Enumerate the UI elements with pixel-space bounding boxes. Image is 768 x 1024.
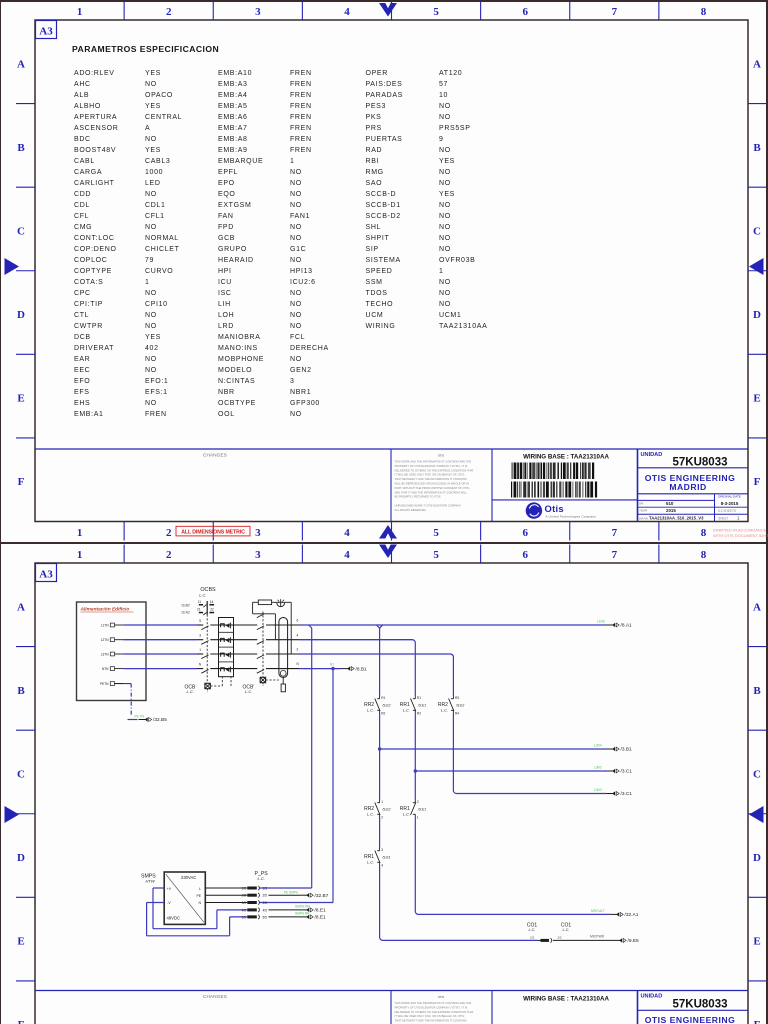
svg-text:2: 2 bbox=[381, 816, 383, 820]
svg-text:F: F bbox=[754, 1019, 761, 1024]
page 2 zone rulers bbox=[16, 545, 766, 1024]
svg-text:4: 4 bbox=[344, 527, 350, 539]
wire L4 feed bbox=[123, 668, 299, 670]
svg-text:R2: R2 bbox=[381, 712, 385, 716]
svg-text:L.C.: L.C. bbox=[403, 709, 410, 713]
wire N bus bbox=[260, 667, 342, 903]
svg-text:C: C bbox=[753, 768, 761, 780]
svg-text:OTIS: OTIS bbox=[438, 454, 445, 458]
svg-text:A United Technologies Company: A United Technologies Company bbox=[546, 515, 597, 519]
svg-text:/S:A2: /S:A2 bbox=[180, 611, 189, 615]
svg-text:2: 2 bbox=[166, 549, 172, 561]
svg-text:MRO ALT: MRO ALT bbox=[591, 909, 605, 913]
svg-text:4: 4 bbox=[381, 864, 383, 868]
svg-text:/32.B5: /32.B5 bbox=[153, 717, 167, 723]
arrow /32.A1 bbox=[591, 909, 639, 918]
svg-text:L: L bbox=[199, 887, 201, 891]
svg-text:N: N bbox=[297, 662, 300, 666]
svg-text:1: 1 bbox=[737, 516, 740, 521]
svg-text:N: N bbox=[199, 901, 202, 905]
svg-text:-V: -V bbox=[167, 901, 171, 905]
svg-text:F: F bbox=[754, 476, 761, 488]
relay contact RR1 2-1 bbox=[400, 800, 427, 820]
svg-text:5: 5 bbox=[433, 527, 439, 539]
svg-text:5: 5 bbox=[433, 549, 439, 561]
wire branch to SMPS L bbox=[260, 625, 312, 888]
relay contact RR1 3-4 bbox=[364, 848, 391, 868]
svg-text:2: 2 bbox=[417, 800, 419, 804]
svg-text:E: E bbox=[17, 393, 24, 405]
svg-text:3: 3 bbox=[255, 6, 261, 18]
svg-text:L3N2: L3N2 bbox=[594, 788, 602, 792]
svg-text:4: 4 bbox=[344, 549, 350, 561]
breaker output pin numbers bbox=[297, 619, 300, 667]
svg-text:4/5: 4/5 bbox=[242, 908, 247, 912]
page 2 centering triangles bbox=[5, 545, 764, 824]
svg-text:A: A bbox=[17, 601, 25, 613]
svg-text:/8.A1: /8.A1 bbox=[621, 623, 633, 629]
arrow /32.B5 bbox=[135, 714, 168, 723]
svg-text:SMPS WH: SMPS WH bbox=[295, 905, 311, 909]
svg-text:AND THAT IT AND THE INFORMATIO: AND THAT IT AND THE INFORMATION IT CONTA… bbox=[395, 490, 468, 494]
svg-text:1/2: 1/2 bbox=[530, 936, 534, 940]
page right edge bbox=[766, 0, 768, 1024]
svg-text:1: 1 bbox=[77, 6, 83, 18]
wire L2 to relay column 2 bbox=[299, 640, 415, 696]
SMPS output wiring bbox=[147, 888, 248, 936]
svg-text:1: 1 bbox=[77, 527, 83, 539]
svg-text:8-3-2015: 8-3-2015 bbox=[721, 501, 739, 506]
svg-text:PE: PE bbox=[196, 894, 201, 898]
arrow /8.E1 a bbox=[295, 905, 326, 914]
svg-text:D: D bbox=[753, 852, 761, 864]
svg-text:22: 22 bbox=[210, 608, 214, 612]
svg-text:3: 3 bbox=[255, 549, 261, 561]
svg-text:7: 7 bbox=[612, 549, 618, 561]
svg-text:D: D bbox=[17, 309, 25, 321]
svg-text:CHANGES: CHANGES bbox=[203, 453, 227, 458]
relay contact RR2 1-2 bbox=[364, 800, 391, 820]
parameter table title bbox=[72, 44, 219, 54]
svg-text:5/5: 5/5 bbox=[242, 915, 247, 919]
svg-text:/3.B1: /3.B1 bbox=[621, 747, 633, 753]
drafted note bbox=[713, 528, 768, 539]
svg-text:/8.E1: /8.E1 bbox=[315, 908, 327, 914]
svg-text:L.C.: L.C. bbox=[403, 813, 410, 817]
svg-text:6: 6 bbox=[522, 527, 528, 539]
svg-text:R3: R3 bbox=[455, 696, 459, 700]
svg-text:R1: R1 bbox=[417, 696, 421, 700]
terminal L3TN bbox=[101, 652, 124, 656]
svg-text:8: 8 bbox=[701, 549, 707, 561]
wire L3 to relay column 3 bbox=[299, 654, 453, 696]
wire L1 feed bbox=[123, 624, 299, 626]
svg-text:TAA21310AA_510_2015_V3: TAA21310AA_510_2015_V3 bbox=[649, 516, 704, 521]
svg-text:L3TN: L3TN bbox=[101, 652, 109, 656]
breaker OCBS label bbox=[199, 587, 216, 598]
svg-text:2: 2 bbox=[166, 6, 172, 18]
svg-text:THAT NEITHER IT NOR THE INFORM: THAT NEITHER IT NOR THE INFORMATION IT C… bbox=[395, 1019, 467, 1023]
terminal NTN bbox=[102, 667, 123, 671]
svg-text:11: 11 bbox=[198, 600, 202, 604]
svg-text:5/5: 5/5 bbox=[263, 915, 268, 919]
svg-text:1: 1 bbox=[417, 816, 419, 820]
svg-text:DELIVERED TO OTHERS ON THE EXP: DELIVERED TO OTHERS ON THE EXPRESS CONDI… bbox=[395, 1010, 475, 1014]
svg-text:/S:E1: /S:E1 bbox=[417, 808, 426, 812]
svg-text:SMPS BN: SMPS BN bbox=[295, 912, 310, 916]
svg-text:/3.C1: /3.C1 bbox=[621, 769, 633, 775]
wire to /3.C1 lower bbox=[453, 714, 606, 794]
wiring base label and barcode bbox=[523, 454, 609, 461]
svg-text:L.C.: L.C. bbox=[199, 592, 206, 597]
svg-text:L.C.: L.C. bbox=[245, 689, 252, 694]
svg-text:HTW: HTW bbox=[146, 878, 156, 883]
svg-text:B: B bbox=[17, 142, 25, 154]
svg-text:6: 6 bbox=[522, 6, 528, 18]
power supply SMPS bbox=[141, 872, 205, 924]
svg-text:PE TN: PE TN bbox=[135, 714, 145, 718]
svg-text:THIS WORK AND THE INFORMATION: THIS WORK AND THE INFORMATION IT CONTAIN… bbox=[395, 460, 472, 464]
svg-text:/32.B7: /32.B7 bbox=[315, 893, 329, 899]
svg-text:E: E bbox=[753, 936, 760, 948]
svg-text:/S:E1: /S:E1 bbox=[381, 856, 390, 860]
svg-text:UNIDAD: UNIDAD bbox=[641, 452, 663, 458]
svg-text:PE SMPS: PE SMPS bbox=[284, 890, 298, 894]
alimentacion edificio box bbox=[77, 602, 147, 701]
svg-text:3: 3 bbox=[255, 527, 261, 539]
svg-text:PETN: PETN bbox=[100, 682, 109, 686]
page top edge bbox=[0, 0, 768, 2]
svg-text:6: 6 bbox=[297, 619, 299, 623]
svg-text:L.C.: L.C. bbox=[367, 813, 374, 817]
breaker OCB-prime symbol bbox=[243, 677, 279, 694]
svg-text:/3.C1: /3.C1 bbox=[621, 791, 633, 797]
svg-text:CHANGES: CHANGES bbox=[203, 994, 227, 999]
svg-text:IT WILL BE USED ONLY FOR, OR O: IT WILL BE USED ONLY FOR, OR ON BEHALF O… bbox=[395, 473, 465, 477]
wire between contacts column1 bbox=[379, 818, 381, 848]
svg-text:N1: N1 bbox=[330, 663, 334, 667]
svg-text:A3: A3 bbox=[39, 26, 53, 38]
title block page 1 bbox=[35, 449, 748, 522]
svg-text:R2: R2 bbox=[417, 712, 421, 716]
page left edge bbox=[0, 0, 1, 1024]
svg-text:A3: A3 bbox=[39, 569, 53, 581]
svg-text:WITH OTIS DOCUMENT 52H7: WITH OTIS DOCUMENT 52H7 bbox=[713, 533, 768, 538]
svg-text:MICPWR: MICPWR bbox=[590, 935, 605, 939]
page separator bbox=[0, 542, 768, 544]
svg-text:1/5: 1/5 bbox=[263, 886, 268, 890]
svg-text:L2N4: L2N4 bbox=[594, 744, 602, 748]
svg-text:6: 6 bbox=[522, 549, 528, 561]
svg-text:L.C.: L.C. bbox=[367, 709, 374, 713]
svg-text:/S:E1: /S:E1 bbox=[417, 704, 426, 708]
svg-text:L3N2: L3N2 bbox=[594, 766, 602, 770]
page 2 A3 format box bbox=[36, 564, 57, 582]
svg-text:14: 14 bbox=[210, 600, 214, 604]
svg-text:4: 4 bbox=[297, 633, 299, 637]
unidad box bbox=[638, 452, 749, 522]
barcode strip 1 bbox=[512, 463, 595, 480]
relay contact RR1 R1-R2 bbox=[400, 696, 427, 716]
svg-text:F: F bbox=[18, 1019, 25, 1024]
svg-text:Alimentación Edificio: Alimentación Edificio bbox=[80, 607, 130, 613]
svg-text:DRAFTED IN ACCORDANCE: DRAFTED IN ACCORDANCE bbox=[713, 528, 767, 533]
svg-text:THAT NEITHER IT NOR THE INFORM: THAT NEITHER IT NOR THE INFORMATION IT C… bbox=[395, 477, 467, 481]
connector P_PS bbox=[205, 871, 300, 920]
arrow /3.C1 lower bbox=[594, 788, 632, 797]
svg-text:WIRING BASE : TAA21310AA: WIRING BASE : TAA21310AA bbox=[523, 454, 609, 461]
svg-text:L2TN: L2TN bbox=[101, 638, 109, 642]
svg-text:BE PROMPTLY RETURNED TO OTIS.: BE PROMPTLY RETURNED TO OTIS. bbox=[395, 495, 442, 499]
arrow /9.E5 bbox=[590, 935, 639, 945]
page 1 drawing frame bbox=[35, 20, 748, 522]
svg-text:230VAC: 230VAC bbox=[181, 875, 196, 880]
svg-text:/8.E1: /8.E1 bbox=[315, 915, 327, 921]
svg-text:48VDC: 48VDC bbox=[167, 916, 181, 921]
wire to /32.A1 bbox=[415, 818, 610, 915]
svg-text:DELIVERED TO OTHERS ON THE EXP: DELIVERED TO OTHERS ON THE EXPRESS CONDI… bbox=[395, 468, 475, 472]
svg-text:A: A bbox=[753, 601, 761, 613]
svg-text:5: 5 bbox=[199, 619, 201, 623]
svg-text:F: F bbox=[18, 476, 25, 488]
page 2 drawing frame bbox=[35, 563, 748, 1024]
undervoltage trip loop with resistor bbox=[253, 600, 292, 654]
wire branch to relay column 1 bbox=[377, 625, 383, 696]
svg-text:4: 4 bbox=[344, 6, 350, 18]
OCBS mechanism dashed link bbox=[206, 615, 208, 684]
svg-text:SHEET: SHEET bbox=[718, 516, 729, 520]
svg-text:A: A bbox=[753, 58, 761, 70]
metric stamp bbox=[176, 526, 250, 536]
svg-text:B: B bbox=[753, 142, 761, 154]
wire L3 feed bbox=[123, 653, 299, 655]
svg-text:3/5: 3/5 bbox=[263, 901, 268, 905]
arrow /32.B7 bbox=[284, 890, 329, 899]
page 1 zone rulers bbox=[16, 2, 766, 541]
terminal L1TN bbox=[101, 623, 124, 627]
current sensor capsule bbox=[279, 618, 288, 692]
svg-text:510: 510 bbox=[666, 501, 674, 506]
svg-text:2: 2 bbox=[297, 648, 299, 652]
svg-text:THIS WORK AND THE INFORMATION: THIS WORK AND THE INFORMATION IT CONTAIN… bbox=[395, 1001, 472, 1005]
breaker OCB-prime dashed link bbox=[262, 612, 264, 678]
svg-text:PROPERTY OF OTIS ELEVATOR COMP: PROPERTY OF OTIS ELEVATOR COMPANY ("OTIS… bbox=[395, 464, 468, 468]
OCBS trip unit block bbox=[219, 618, 234, 677]
title block page 2 (cut) bbox=[35, 991, 748, 1024]
svg-text:ALL DIMENSIONS METRIC: ALL DIMENSIONS METRIC bbox=[181, 530, 245, 536]
svg-text:B: B bbox=[753, 685, 761, 697]
svg-text:D: D bbox=[17, 852, 25, 864]
svg-text:OTIS: OTIS bbox=[438, 995, 445, 999]
svg-text:1/2: 1/2 bbox=[558, 936, 562, 940]
svg-text:1: 1 bbox=[77, 549, 83, 561]
terminal PETN bbox=[100, 682, 123, 686]
OCB-prime pole switches bbox=[257, 614, 264, 673]
svg-text:L.C.: L.C. bbox=[258, 876, 265, 881]
svg-text:2/5: 2/5 bbox=[263, 894, 268, 898]
svg-text:UNPUBLISHED WORK © OTIS ELEVAT: UNPUBLISHED WORK © OTIS ELEVATOR COMPANY bbox=[395, 504, 462, 508]
svg-text:RR1: RR1 bbox=[400, 702, 410, 708]
svg-text:ORIGINAL DATE: ORIGINAL DATE bbox=[718, 494, 741, 498]
svg-text:R1: R1 bbox=[381, 696, 385, 700]
page 1 centering triangles bbox=[5, 3, 764, 539]
svg-text:B: B bbox=[17, 685, 25, 697]
svg-text:3: 3 bbox=[199, 634, 201, 638]
svg-text:R4: R4 bbox=[455, 712, 459, 716]
svg-text:PART, WITHOUT THE PRIOR WRITTE: PART, WITHOUT THE PRIOR WRITTEN CONSENT … bbox=[395, 486, 470, 490]
svg-text:/9.E5: /9.E5 bbox=[628, 938, 640, 944]
svg-text:8: 8 bbox=[701, 6, 707, 18]
relay contact RR2 R1-R2 bbox=[364, 696, 391, 716]
svg-text:L.C.: L.C. bbox=[367, 861, 374, 865]
svg-text:WIRING BASE : TAA21310AA: WIRING BASE : TAA21310AA bbox=[523, 996, 609, 1003]
svg-text:DR.: DR. bbox=[639, 502, 644, 506]
svg-text:NTN: NTN bbox=[102, 667, 109, 671]
svg-text:7: 7 bbox=[612, 527, 618, 539]
svg-text:L.C.: L.C. bbox=[187, 689, 194, 694]
svg-text:5.3 SHEETS: 5.3 SHEETS bbox=[718, 509, 736, 513]
arrow /8.B1 bbox=[330, 663, 367, 673]
otis logo bbox=[526, 502, 597, 518]
svg-text:N: N bbox=[199, 663, 202, 667]
wire MICPWR down bbox=[380, 866, 537, 941]
svg-text:1: 1 bbox=[199, 648, 201, 652]
page 1 A3 format box bbox=[36, 21, 57, 39]
svg-text:7: 7 bbox=[612, 6, 618, 18]
svg-text:UNIDAD: UNIDAD bbox=[641, 993, 663, 999]
svg-text:Otis: Otis bbox=[545, 503, 564, 514]
svg-text:A: A bbox=[17, 58, 25, 70]
OCBS pole switches bbox=[199, 619, 209, 673]
svg-text:E: E bbox=[753, 393, 760, 405]
svg-text:/S:B2: /S:B2 bbox=[180, 604, 189, 608]
svg-text:RR2: RR2 bbox=[364, 806, 374, 812]
svg-text:L1N6: L1N6 bbox=[597, 620, 605, 624]
terminal L2TN bbox=[101, 638, 124, 642]
svg-text:RR1: RR1 bbox=[364, 854, 374, 860]
svg-text:2: 2 bbox=[166, 527, 172, 539]
svg-text:/S:E2: /S:E2 bbox=[455, 704, 464, 708]
svg-text:L.C.: L.C. bbox=[529, 928, 536, 932]
wire to /3.C1 upper bbox=[414, 714, 606, 800]
wire L2 feed bbox=[123, 639, 299, 641]
arrow /8.E1 b bbox=[295, 912, 326, 921]
svg-text:RR2: RR2 bbox=[438, 702, 448, 708]
barcode strip 2 bbox=[511, 482, 597, 498]
svg-text:E: E bbox=[17, 936, 24, 948]
trip coil symbol bbox=[277, 599, 285, 606]
svg-text:4/5: 4/5 bbox=[263, 908, 268, 912]
svg-text:YEAR: YEAR bbox=[639, 509, 648, 513]
svg-text:WILL BE REPRODUCED OR DISCLOSE: WILL BE REPRODUCED OR DISCLOSED, IN WHOL… bbox=[395, 482, 469, 486]
svg-text:2015: 2015 bbox=[666, 508, 676, 513]
svg-text:/32.A1: /32.A1 bbox=[625, 912, 639, 918]
svg-text:21: 21 bbox=[197, 608, 201, 612]
svg-text:/8.B1: /8.B1 bbox=[356, 666, 368, 672]
svg-text:/S:E2: /S:E2 bbox=[381, 704, 390, 708]
svg-text:IT WILL BE USED ONLY FOR, OR O: IT WILL BE USED ONLY FOR, OR ON BEHALF O… bbox=[395, 1014, 465, 1018]
arrow /8.A1 bbox=[597, 620, 632, 629]
svg-text:L1TN: L1TN bbox=[101, 623, 109, 627]
svg-text:57KU8033: 57KU8033 bbox=[673, 999, 728, 1011]
svg-text:OTIS ENGINEERING: OTIS ENGINEERING bbox=[645, 1015, 736, 1024]
svg-text:/S:E2: /S:E2 bbox=[381, 808, 390, 812]
svg-text:+V: +V bbox=[167, 887, 172, 891]
OCBS auxiliary contacts 11-14 21-22 bbox=[180, 600, 214, 615]
wire L1 bus to /8.A1 bbox=[299, 624, 606, 626]
svg-text:8: 8 bbox=[701, 527, 707, 539]
svg-text:3: 3 bbox=[381, 848, 383, 852]
svg-text:1: 1 bbox=[381, 800, 383, 804]
svg-text:C: C bbox=[753, 225, 761, 237]
disclaimer text block bbox=[395, 454, 475, 512]
arrow /3.B1 bbox=[594, 744, 632, 753]
svg-text:57KU8033: 57KU8033 bbox=[673, 457, 728, 469]
svg-text:PROPERTY OF OTIS ELEVATOR COMP: PROPERTY OF OTIS ELEVATOR COMPANY ("OTIS… bbox=[395, 1005, 468, 1009]
svg-text:D: D bbox=[753, 309, 761, 321]
svg-text:RR1: RR1 bbox=[400, 806, 410, 812]
svg-text:L.C.: L.C. bbox=[441, 709, 448, 713]
breaker OCB symbol bbox=[185, 677, 232, 695]
svg-text:DRAW.: DRAW. bbox=[639, 516, 649, 520]
wire to /3.B1 bbox=[378, 714, 606, 800]
connector CO1 pair bbox=[527, 922, 613, 942]
svg-text:RR2: RR2 bbox=[364, 702, 374, 708]
svg-text:C: C bbox=[17, 768, 25, 780]
relay contact RR2 R3-R4 bbox=[438, 696, 465, 716]
svg-text:ALL RIGHTS RESERVED.: ALL RIGHTS RESERVED. bbox=[395, 508, 427, 512]
svg-text:C: C bbox=[17, 225, 25, 237]
svg-text:MADRID: MADRID bbox=[669, 482, 706, 492]
wire PE feed bbox=[115, 684, 138, 720]
svg-text:L.C.: L.C. bbox=[563, 928, 570, 932]
arrow /3.C1 upper bbox=[594, 766, 632, 775]
svg-text:5: 5 bbox=[433, 6, 439, 18]
